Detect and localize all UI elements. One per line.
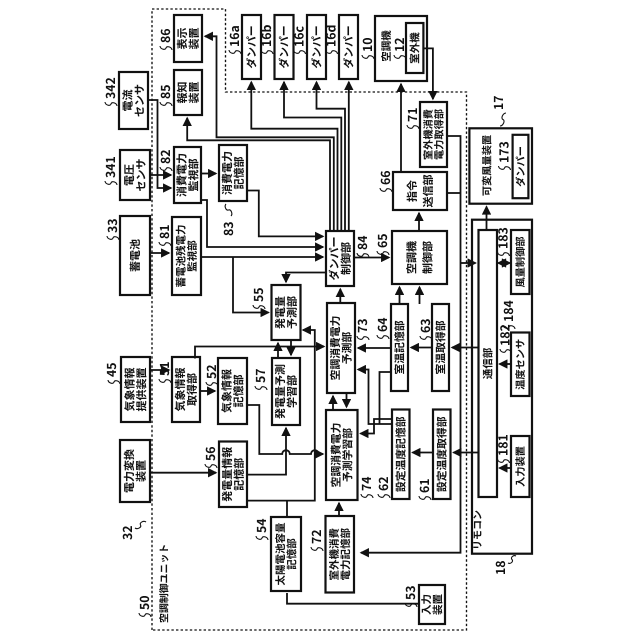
- label 61: [419, 479, 431, 500]
- block 10 air conditioner: [375, 16, 427, 81]
- wire 72 to 74: [338, 503, 340, 516]
- block 57 generation predict learner: [272, 358, 300, 425]
- label 65: [377, 234, 389, 255]
- label 183: [498, 228, 510, 256]
- label 18: [496, 556, 516, 574]
- block 73 AC power predictor: [327, 303, 355, 393]
- wire 62 to 74: [361, 419, 393, 434]
- wire 184 to 17: [486, 207, 488, 230]
- label 45: [107, 363, 120, 384]
- label 86: [160, 29, 172, 50]
- label 182: [500, 325, 512, 353]
- wire 81 branch to 55: [233, 257, 269, 313]
- wire 84 to 16c: [317, 82, 346, 231]
- label 12: [394, 38, 406, 59]
- label 62: [378, 477, 390, 498]
- block 55 generation predictor: [272, 285, 301, 340]
- block 183 airflow controller: [511, 230, 530, 294]
- wire 51 to 52: [200, 390, 215, 392]
- label 50: [139, 596, 151, 617]
- block 18 remote controller: [472, 220, 532, 554]
- wire 52 to 74 with hops: [247, 405, 323, 454]
- label 342: [105, 78, 117, 106]
- label 33: [107, 219, 119, 240]
- block 33 storage battery: [120, 216, 150, 295]
- block 66 command transmitter: [393, 172, 447, 210]
- wire 81 to 84: [201, 256, 323, 258]
- wire 82 to 83: [201, 173, 216, 175]
- block 86 display device: [174, 15, 202, 62]
- block 53 input device: [419, 585, 445, 624]
- wire 54 join: [286, 501, 288, 517]
- wire bottom branch to 184: [461, 262, 476, 264]
- block 85 notifier: [174, 70, 202, 115]
- wire 184 to 63: [452, 347, 479, 349]
- wire 83 to 84: [247, 191, 323, 237]
- wire 184 to 61: [454, 452, 479, 454]
- wire 181 to 184: [500, 467, 512, 469]
- block 16d damper: [339, 15, 358, 79]
- block 16a damper: [242, 15, 261, 79]
- label 55: [253, 288, 265, 309]
- label 57: [255, 369, 267, 390]
- label 72: [311, 530, 323, 551]
- wire 64 to 73: [358, 347, 391, 349]
- wire 65 to 66: [418, 213, 420, 231]
- block 63 room temp acquirer: [432, 304, 449, 391]
- label 51: [159, 362, 171, 383]
- block 184 communicator: [479, 230, 498, 497]
- wire 74 to 73: [332, 396, 334, 410]
- wire 84 to 16a: [251, 82, 337, 231]
- label 184: [503, 301, 515, 329]
- wire 64 join 62-73 riser: [380, 372, 392, 424]
- text 可変風量装置 in block 17: [482, 135, 492, 195]
- dashed unit border 50 空調制御ユニット: [152, 9, 467, 630]
- block 54 solar capacity memory: [271, 517, 301, 591]
- wire 71 to 72 main bottom wire: [361, 136, 461, 553]
- label 73: [357, 319, 369, 340]
- block 56 generation info memory: [219, 442, 247, 508]
- wire 84 to 65: [354, 257, 389, 259]
- wire 64 to 65: [399, 287, 401, 304]
- block 62 set temp memory: [392, 410, 410, 500]
- label 16a: [229, 26, 241, 54]
- block 342 current sensor: [119, 72, 148, 129]
- wire 62 to 73: [358, 370, 392, 425]
- label 341: [105, 157, 117, 185]
- wire 84 to 55: [286, 273, 326, 283]
- wire 73 to 74: [346, 393, 348, 407]
- wire 33 to 81: [150, 252, 169, 254]
- wire 12 to 71: [423, 48, 433, 99]
- block 81 battery remaining monitor: [172, 217, 201, 295]
- block 84 damper controller: [326, 231, 354, 286]
- label 17: [494, 96, 506, 126]
- wire 184 to 183: [498, 262, 510, 264]
- block 45 weather info provider: [121, 357, 150, 422]
- wire 61 to 62: [413, 452, 434, 454]
- wire 63 to 65: [419, 287, 421, 304]
- block 74 AC power predict learner: [326, 410, 358, 500]
- wire 82 to 84: [201, 200, 323, 247]
- label 181: [498, 435, 510, 463]
- label 54: [256, 519, 268, 540]
- text リモコン in block 18: [473, 511, 481, 548]
- block 65 AC controller: [392, 231, 447, 284]
- label 63: [420, 319, 432, 340]
- wire 56 to 55: [247, 330, 315, 501]
- block 16b damper: [275, 15, 294, 79]
- block 83 power memory: [219, 145, 247, 201]
- wire 57 to 55: [277, 343, 279, 358]
- block 181 input device: [511, 436, 530, 497]
- block 173 damper: [513, 135, 529, 198]
- label 64: [377, 318, 389, 339]
- wire 182 to 184: [500, 363, 512, 365]
- wire 66 join bottom wire: [447, 192, 461, 194]
- label 71: [407, 108, 419, 129]
- label 81: [159, 225, 171, 246]
- wire 51 to 73: [195, 347, 324, 359]
- text 空調機 in block 10: [381, 30, 391, 61]
- label 16c: [294, 26, 306, 54]
- label 82: [160, 150, 172, 171]
- label 85: [160, 85, 172, 106]
- block 341 voltage sensor: [120, 150, 150, 200]
- wire 84 to 86: [205, 36, 334, 231]
- wire 84 to 16b: [284, 82, 341, 231]
- wire 84 to 85: [187, 118, 330, 231]
- label 56: [205, 447, 217, 468]
- wire 341 to 82: [150, 174, 171, 176]
- title 空調制御ユニット: [159, 545, 168, 622]
- wire 53 to 54: [287, 593, 419, 604]
- block 64 room temp memory: [391, 304, 408, 391]
- block 51 weather info acquirer: [172, 357, 200, 422]
- label 84: [357, 236, 369, 257]
- block 52 weather info memory: [218, 358, 247, 424]
- label 16b: [261, 25, 273, 54]
- label 83: [224, 204, 233, 235]
- wire 73 to 84: [339, 289, 341, 303]
- block 17 variable airflow device: [469, 128, 532, 203]
- label 173: [499, 142, 511, 170]
- block 182 temperature sensor: [511, 333, 530, 397]
- label 16d: [326, 26, 338, 54]
- block 71 outdoor power acquirer: [420, 102, 447, 167]
- wire 84 to 16d: [348, 82, 350, 231]
- block 16c damper: [307, 15, 326, 79]
- label 53: [405, 586, 417, 607]
- wire 55 to 57: [290, 340, 292, 355]
- block 72 outdoor power memory: [326, 516, 355, 593]
- block 82 power monitor: [174, 147, 201, 203]
- wire 63 to 64: [411, 347, 432, 349]
- block 32 power converter: [120, 440, 150, 502]
- label 52: [206, 365, 218, 386]
- label 32: [123, 521, 146, 539]
- wire 32 to 56: [150, 472, 216, 474]
- label 74: [361, 477, 373, 498]
- wire 66 to 10: [400, 84, 402, 172]
- block 61 set temp acquirer: [433, 410, 451, 500]
- wire 342 to 82: [148, 100, 171, 188]
- wire 56 to 57: [247, 428, 286, 475]
- label 66: [380, 171, 392, 192]
- block 12 outdoor unit: [406, 23, 423, 73]
- label 10: [362, 38, 374, 59]
- wire 45 to 51: [150, 369, 169, 371]
